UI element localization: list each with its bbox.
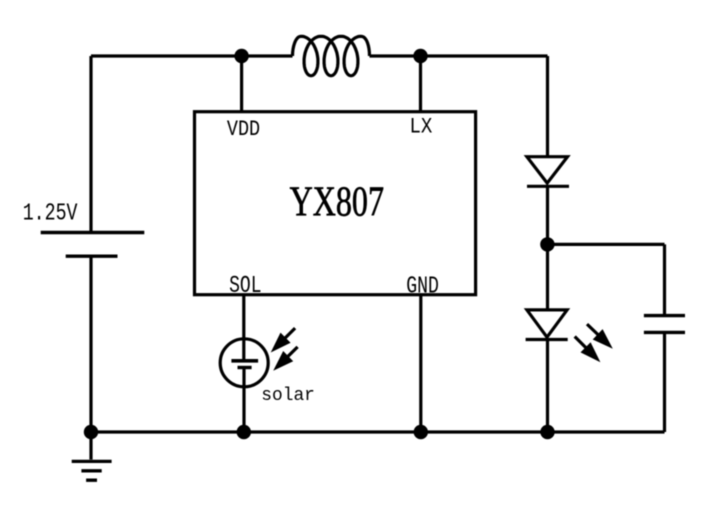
svg-text:LX: LX [410, 114, 433, 139]
svg-text:VDD: VDD [227, 117, 260, 142]
svg-text:solar: solar [261, 386, 315, 406]
svg-text:GND: GND [406, 273, 439, 300]
svg-text:SOL: SOL [229, 273, 261, 300]
svg-text:YX807: YX807 [290, 179, 384, 225]
svg-text:1.25V: 1.25V [23, 201, 78, 228]
